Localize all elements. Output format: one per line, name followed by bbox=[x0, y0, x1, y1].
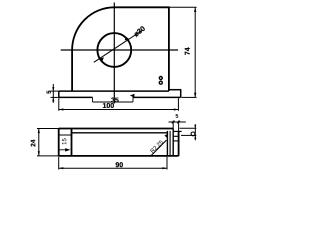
top micro dim tick right bbox=[177, 121, 180, 124]
right micro dim arrow upper bbox=[194, 125, 196, 129]
small hole mark upper bbox=[159, 77, 162, 80]
inner horizontal lower-left bbox=[59, 149, 66, 151]
small hole mark lower bbox=[159, 81, 162, 84]
dim 24 line bbox=[38, 129, 40, 156]
top micro dim ext right bbox=[178, 121, 180, 132]
dim 74 arrow top bbox=[194, 7, 196, 12]
small box lower line bbox=[173, 140, 178, 142]
outer rect top edge (with notch gap) bbox=[59, 128, 174, 130]
right micro dim ext upper bbox=[180, 127, 197, 129]
top micro dim line bbox=[169, 121, 186, 123]
dim 90 line bbox=[59, 167, 167, 169]
notch floor bbox=[173, 130, 181, 132]
svg-text:ø30: ø30 bbox=[132, 24, 147, 39]
dim 100 line bbox=[59, 109, 179, 111]
dim 90 arrow left bbox=[59, 167, 64, 169]
svg-text:5: 5 bbox=[175, 114, 178, 120]
outer rect right edge bbox=[178, 131, 180, 156]
small circle mark at right micro dim bbox=[191, 132, 195, 136]
outer rect bottom edge bbox=[59, 155, 179, 157]
extra inner vertical bbox=[169, 131, 171, 156]
base plate right edge bbox=[180, 90, 182, 98]
dia leader line bbox=[94, 30, 143, 62]
dim 35 arrow blob bbox=[130, 94, 135, 98]
right micro dim arrow lower bbox=[194, 135, 196, 139]
dim 35 left jog bbox=[92, 97, 94, 102]
dim 5 arrow top bbox=[52, 87, 54, 91]
dim 100 arrow right bbox=[174, 108, 179, 110]
body outline (side view) bbox=[72, 7, 169, 91]
dim 24 extension top bbox=[37, 128, 59, 130]
vertical centerline bbox=[113, 3, 115, 104]
inner long line bbox=[72, 132, 168, 134]
hole circle bbox=[97, 33, 131, 67]
dim 100 arrow left bbox=[59, 108, 64, 110]
radius leader line bbox=[151, 140, 167, 156]
small box upper line bbox=[173, 135, 178, 137]
dim 24 arrow top bbox=[38, 129, 40, 134]
dim 15 arrow bbox=[65, 148, 70, 152]
dim 35 lowered line bbox=[93, 101, 134, 103]
base plate top edge (side view) bbox=[59, 90, 169, 92]
dim 74 extension bottom bbox=[182, 96, 197, 98]
inner vertical right bbox=[166, 131, 168, 156]
dim 5 arrow bottom bbox=[52, 97, 54, 101]
dim 24 arrow bottom bbox=[38, 151, 40, 156]
right micro dim line bbox=[194, 124, 196, 140]
svg-text:90: 90 bbox=[115, 162, 123, 169]
svg-text:5: 5 bbox=[47, 90, 53, 94]
top micro dim ext left bbox=[172, 121, 174, 129]
dim 74 line bbox=[194, 7, 196, 97]
dim 90 arrow right bbox=[162, 167, 167, 169]
horizontal centerline bbox=[61, 49, 178, 51]
svg-text:24: 24 bbox=[30, 139, 37, 147]
base plate left edge bbox=[58, 91, 60, 97]
dim 35 right jog bbox=[132, 95, 134, 102]
dim 90 extension right bbox=[166, 157, 168, 170]
dim 5 extension bottom bbox=[51, 96, 59, 98]
inner horizontal upper-left bbox=[59, 134, 72, 136]
base plate bottom edge right segment bbox=[133, 96, 181, 98]
dim 74 arrow bottom bbox=[194, 93, 196, 98]
svg-text:R2.25: R2.25 bbox=[150, 140, 165, 155]
base plate step edge right bbox=[169, 89, 181, 91]
top micro dim tick left bbox=[172, 121, 175, 124]
dim 90 extension left bbox=[58, 157, 60, 170]
dim 24 extension bottom bbox=[37, 155, 59, 157]
svg-text:74: 74 bbox=[185, 47, 192, 55]
outer rect left edge bbox=[58, 129, 60, 156]
base plate bottom edge left segment bbox=[59, 96, 93, 98]
notch left wall vertical bbox=[172, 129, 174, 156]
inner vertical left bbox=[71, 129, 73, 156]
dim 100 extension right bbox=[177, 98, 179, 111]
dim 74 extension top bbox=[169, 6, 197, 8]
dim 5 extension top bbox=[51, 90, 59, 92]
right micro dim ext lower bbox=[181, 134, 196, 136]
dia leader arrow lower bbox=[99, 57, 104, 61]
svg-text:15: 15 bbox=[62, 137, 68, 144]
svg-text:100: 100 bbox=[102, 103, 114, 110]
dim 5 line bbox=[52, 84, 54, 103]
dim 100 extension left bbox=[58, 98, 60, 111]
radius leader arrow bbox=[165, 134, 169, 138]
dia leader arrow upper bbox=[125, 37, 130, 41]
